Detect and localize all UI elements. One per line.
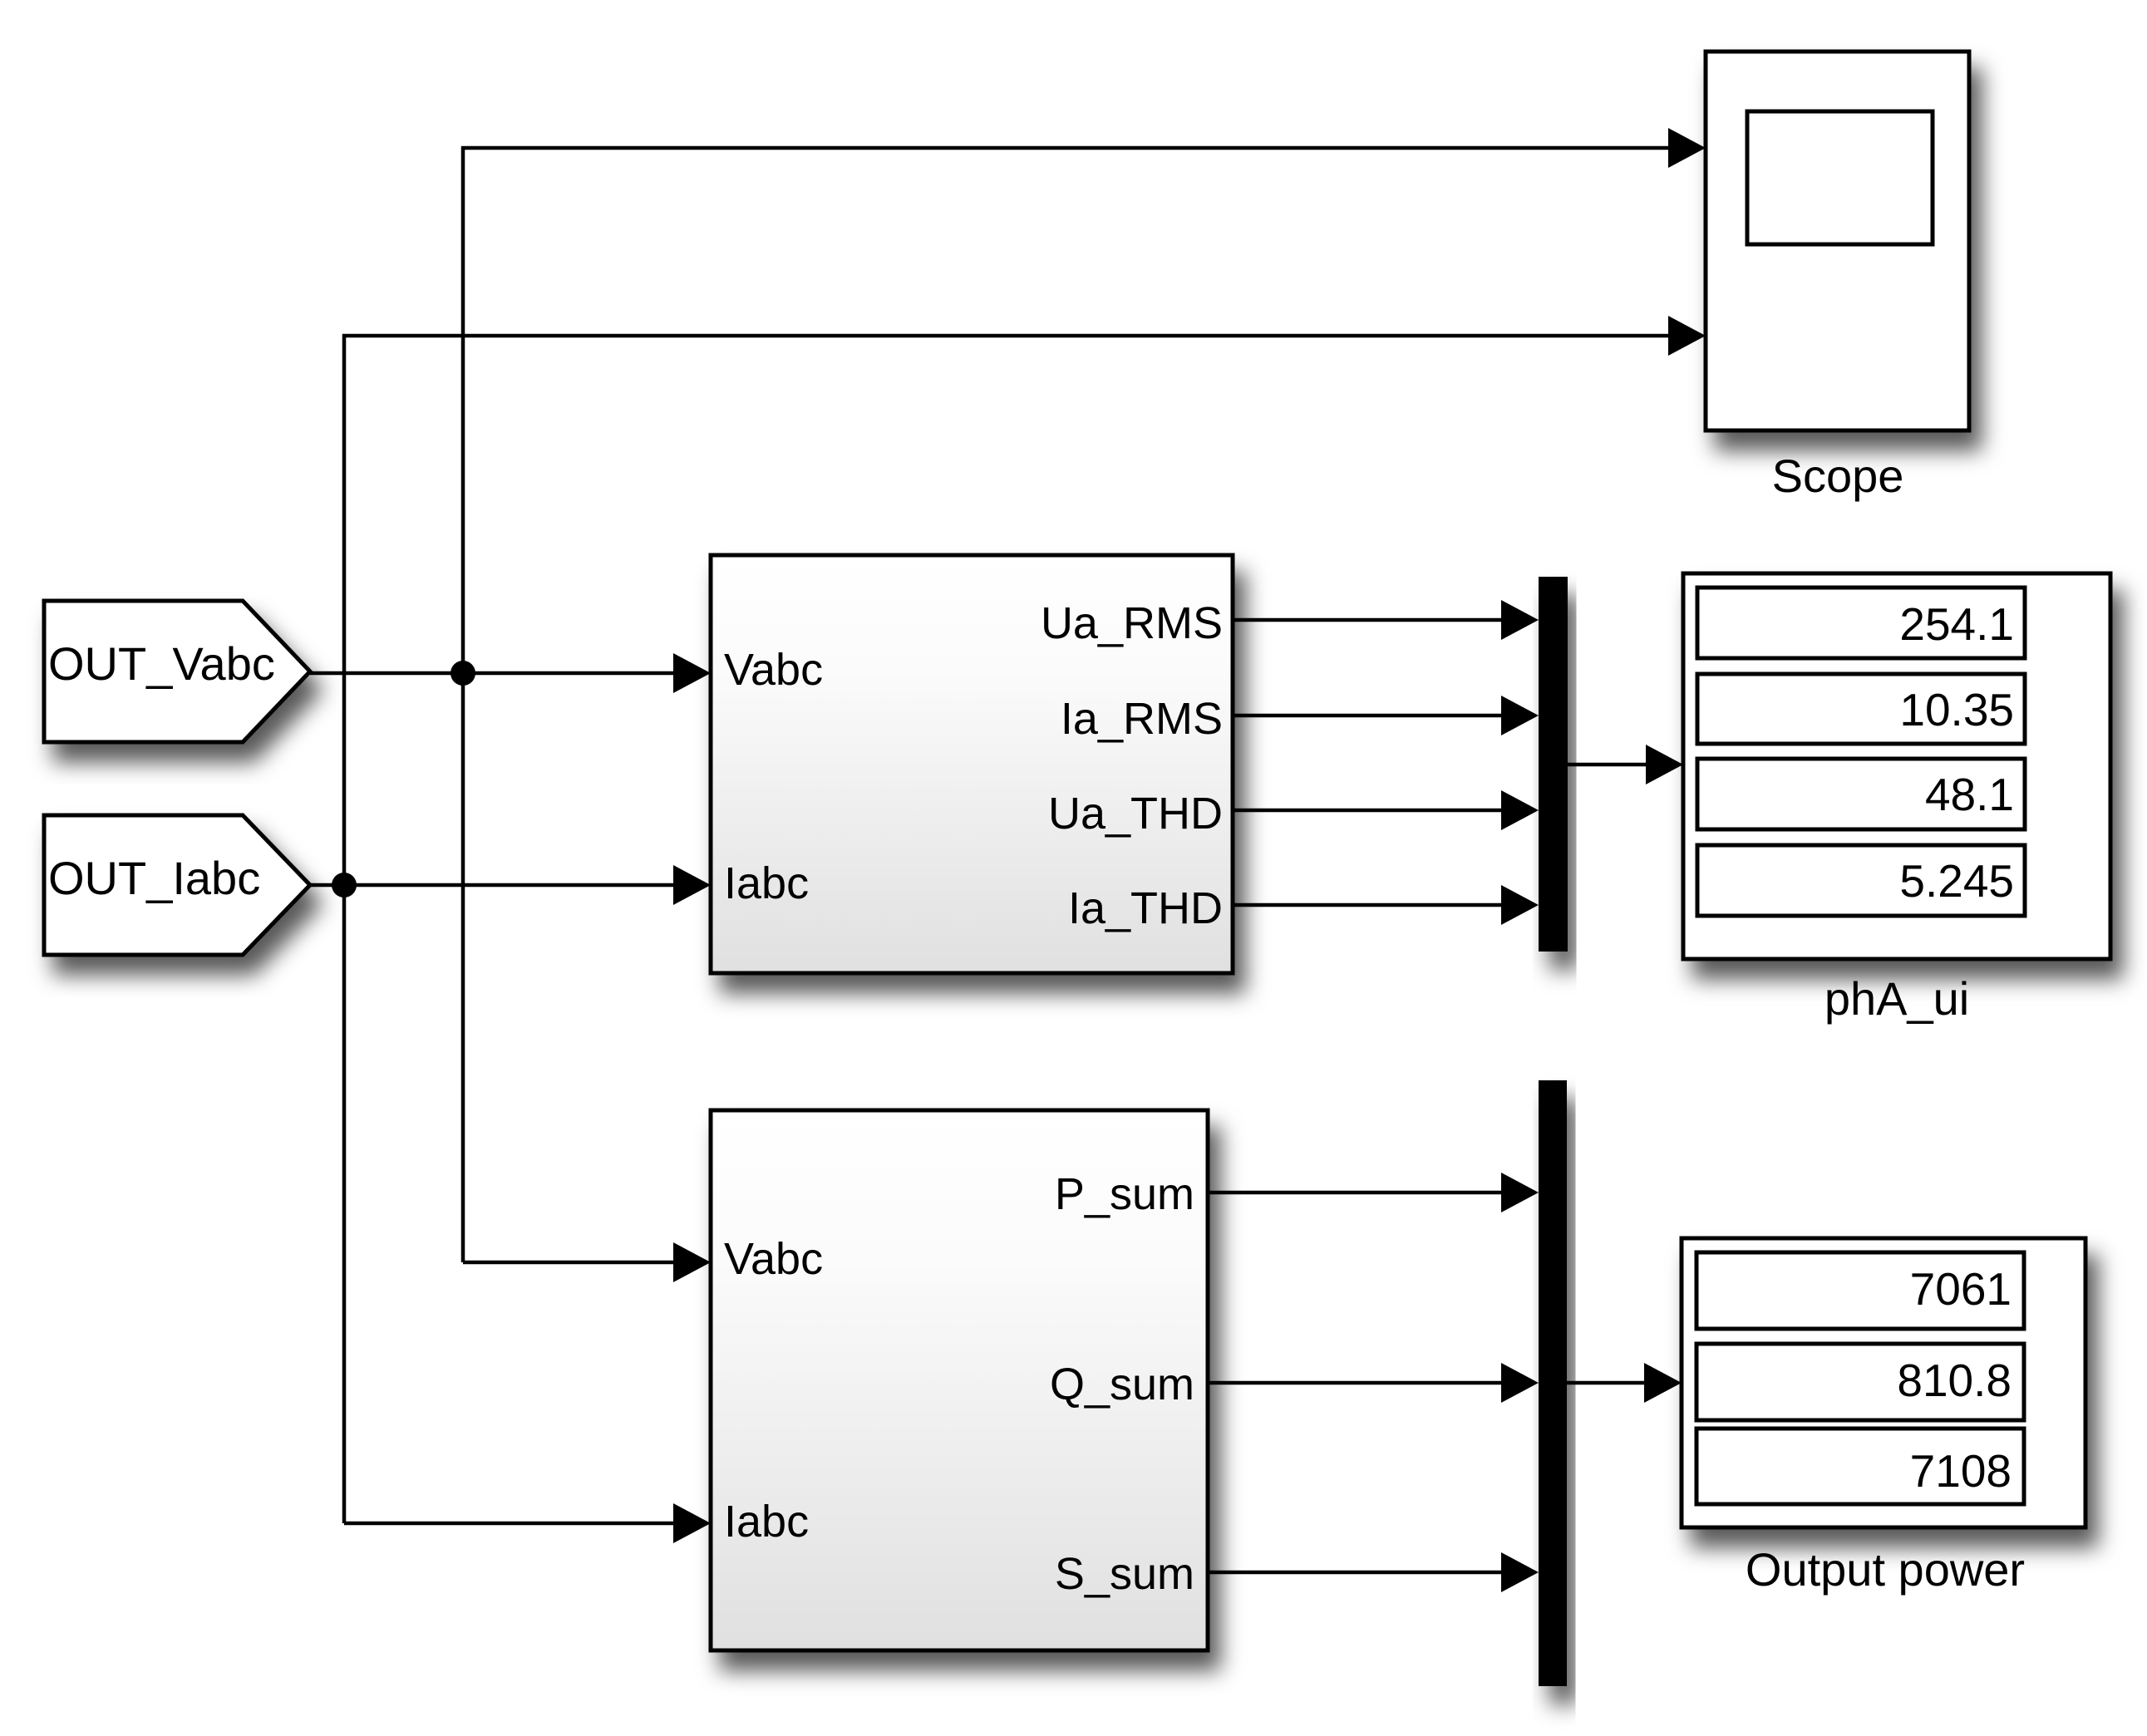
wire: OUT_Iabc to subsystem1 Iabc input (y=1065) (308, 883, 677, 888)
junction dot on OUT_Vabc wire at x=557 (451, 661, 475, 686)
junction dot on OUT_Iabc wire at x=414 (332, 873, 357, 898)
wire: branch to subsystem2 Vabc input (y=1519) (463, 1261, 677, 1265)
wire: arrowhead P_sum into Mux2 (1501, 1173, 1539, 1212)
svg-text:OUT_Vabc: OUT_Vabc (48, 637, 275, 690)
block: Mux1 (vertical bar) (1539, 577, 1568, 952)
svg-text:Scope: Scope (1772, 450, 1904, 502)
block: Mux2 (vertical bar) (1539, 1080, 1567, 1686)
wire: arrowhead Q_sum into Mux2 (1501, 1363, 1539, 1403)
wire: arrowhead into subsystem1 Vabc (673, 653, 711, 693)
svg-text:Ia_THD: Ia_THD (1068, 883, 1223, 933)
svg-text:Vabc: Vabc (724, 645, 823, 695)
wire: arrowhead into subsystem2 Iabc (673, 1503, 711, 1543)
wire: vertical branch from OUT_Iabc junction up to y=404 and down to Iabc of subsystem2 (342, 334, 347, 1523)
wire: arrowhead Ua_THD into Mux1 (1501, 790, 1539, 830)
wire: arrowhead Ia_THD into Mux1 (1501, 885, 1539, 925)
wire: OUT_Vabc to Scope input 1 (horizontal, y=178) (461, 146, 1672, 150)
svg-text:5.245: 5.245 (1899, 855, 2014, 907)
svg-text:254.1: 254.1 (1899, 598, 2014, 650)
svg-text:Vabc: Vabc (724, 1234, 823, 1284)
wire: subsystem2 P_sum output to Mux2 (y=1435) (1208, 1191, 1506, 1195)
wire: OUT_Vabc to subsystem1 Vabc input (y=810) (310, 671, 677, 676)
wire: Mux2 output to display Output power (y=1664) (1567, 1381, 1648, 1385)
svg-text:10.35: 10.35 (1899, 684, 2014, 735)
svg-text:phA_ui: phA_ui (1824, 972, 1969, 1025)
wire: vertical branch from OUT_Vabc junction up to y=178 and down to Vabc of subsystem2 (461, 146, 465, 1262)
wire: subsystem1 Ia_RMS output to Mux1 (y=861) (1233, 714, 1506, 718)
svg-text:P_sum: P_sum (1055, 1169, 1194, 1219)
wire: subsystem1 Ua_THD output to Mux1 (y=975) (1233, 809, 1506, 813)
wire: arrowhead Ua_RMS into Mux1 (1501, 600, 1539, 640)
svg-text:Ia_RMS: Ia_RMS (1061, 694, 1223, 744)
svg-text:Q_sum: Q_sum (1050, 1360, 1194, 1409)
block: subsystem2 (power measurement) (711, 1110, 1208, 1650)
svg-text:OUT_Iabc: OUT_Iabc (48, 852, 260, 904)
svg-text:Output power: Output power (1746, 1543, 2025, 1596)
svg-text:48.1: 48.1 (1925, 769, 2014, 820)
block: port tag OUT_Vabc (pentagon) (44, 601, 310, 742)
svg-text:Iabc: Iabc (724, 1497, 809, 1547)
block: Scope (1706, 52, 1969, 502)
svg-text:810.8: 810.8 (1897, 1355, 2012, 1406)
block: port tag OUT_Iabc (pentagon) (44, 815, 310, 955)
wire: subsystem2 Q_sum output to Mux2 (y=1664) (1208, 1381, 1506, 1385)
wire: subsystem1 Ia_THD output to Mux1 (y=1089) (1233, 903, 1506, 907)
wire: OUT_Iabc to Scope input 2 (horizontal, y=404) (342, 334, 1672, 338)
wire: arrowhead Ia_RMS into Mux1 (1501, 696, 1539, 735)
svg-text:7108: 7108 (1910, 1445, 2012, 1497)
svg-text:S_sum: S_sum (1055, 1549, 1194, 1599)
wire: subsystem1 Ua_RMS output to Mux1 (y=746) (1233, 618, 1506, 622)
wire: arrowhead into display phA_ui (1646, 745, 1683, 784)
block: display Output power (1682, 1238, 2085, 1596)
wire: arrowhead into Scope input 1 (1668, 128, 1706, 168)
wire: arrowhead S_sum into Mux2 (1501, 1552, 1539, 1592)
wire: arrowhead into subsystem1 Iabc (673, 865, 711, 905)
svg-text:Ua_THD: Ua_THD (1048, 789, 1223, 838)
wire: arrowhead into display Output power (1644, 1363, 1682, 1403)
wire: subsystem2 S_sum output to Mux2 (y=1892) (1208, 1571, 1506, 1575)
block: subsystem1 (RMS/THD measurement) (711, 555, 1233, 973)
block: display phA_ui (1683, 573, 2110, 1025)
wire: branch to subsystem2 Iabc input (y=1833) (344, 1522, 677, 1526)
wire: arrowhead into Scope input 2 (1668, 316, 1706, 356)
svg-text:7061: 7061 (1910, 1263, 2012, 1315)
wire: arrowhead into subsystem2 Vabc (673, 1242, 711, 1282)
svg-text:Ua_RMS: Ua_RMS (1041, 598, 1223, 648)
svg-text:Iabc: Iabc (724, 858, 809, 908)
wire: Mux1 output to display phA_ui (y=920) (1568, 763, 1650, 767)
